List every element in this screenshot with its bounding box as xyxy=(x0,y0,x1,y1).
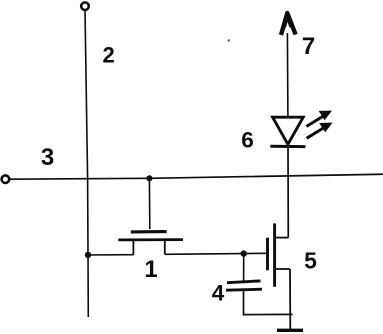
svg-text:6: 6 xyxy=(241,127,254,152)
wire: Q5 drain up to LED cathode xyxy=(287,145,289,238)
wire: horizontal net 3 across page xyxy=(9,174,383,179)
wire: Q1 source to left vertical xyxy=(88,254,133,256)
transistor Q5 (MOS, vertical gate bar + channel bar) xyxy=(268,223,291,286)
wire: LED anode up to arrow 7 xyxy=(286,33,289,117)
junction dot on left vertical at Q1 source xyxy=(85,252,91,258)
LED D6 cathode bar xyxy=(270,145,305,148)
transistor Q1 (MOS, gate bar + channel bar) xyxy=(118,232,183,255)
wire: Q1 drain to Q5 gate xyxy=(165,253,267,254)
wire: gate lead of Q1 xyxy=(148,178,150,229)
ground xyxy=(277,329,303,332)
capacitor C4 plates xyxy=(226,281,262,290)
LED D6 triangle xyxy=(273,117,304,144)
LED emission arrow lower xyxy=(307,123,333,139)
wire: Q5 source down to ground xyxy=(289,269,291,330)
arrow terminal 7 (up arrow) xyxy=(281,12,296,36)
svg-text:7: 7 xyxy=(302,33,315,60)
speck artifact xyxy=(228,39,230,41)
svg-text:4: 4 xyxy=(212,280,225,305)
wire: capacitor C4 top lead xyxy=(243,254,245,282)
svg-text:1: 1 xyxy=(144,256,157,283)
terminal node 2 (open circle, top left) xyxy=(81,2,89,10)
junction dot at capacitor tap xyxy=(241,250,247,256)
svg-text:2: 2 xyxy=(102,43,114,68)
svg-text:3: 3 xyxy=(41,144,54,171)
terminal node 3 (open circle, left edge) xyxy=(2,175,10,183)
junction dot on net 3 at gate of Q1 xyxy=(146,175,152,181)
svg-text:5: 5 xyxy=(304,248,317,274)
wire: vertical net 2 from terminal down to bottom xyxy=(85,10,88,317)
wire: capacitor C4 bottom lead and bottom rail to Q5 source xyxy=(244,290,293,314)
LED emission arrow upper xyxy=(307,111,333,127)
